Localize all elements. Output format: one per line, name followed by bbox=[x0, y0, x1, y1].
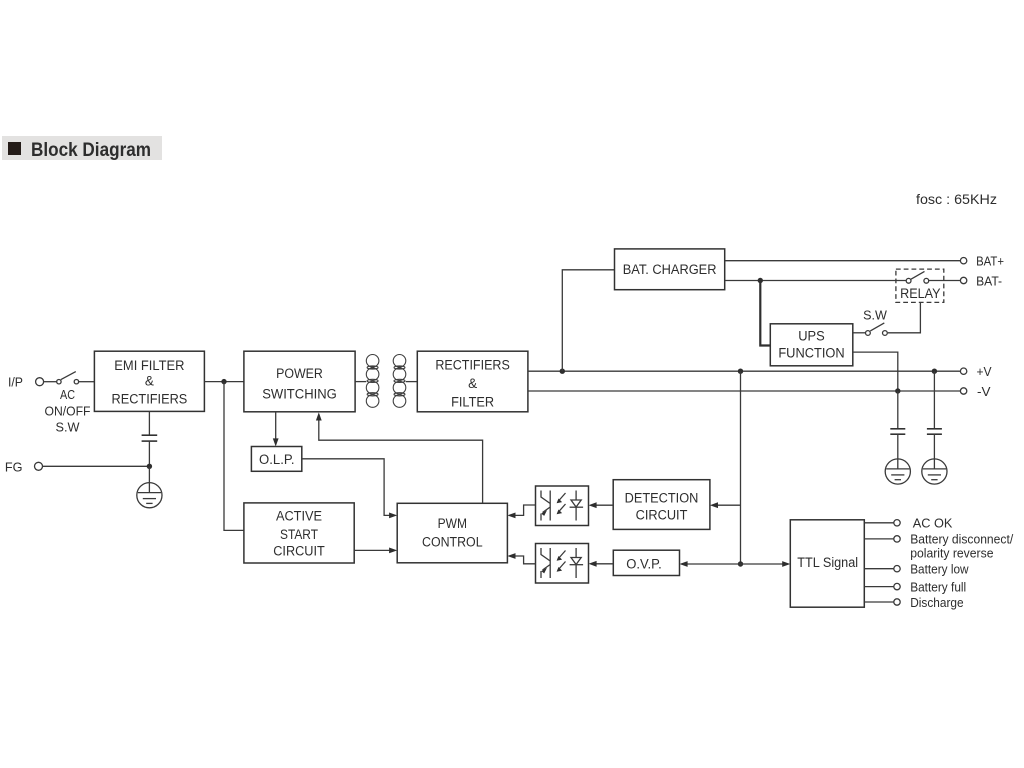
svg-text:+V: +V bbox=[977, 364, 992, 379]
svg-text:SWITCHING: SWITCHING bbox=[262, 387, 337, 402]
switch S.W lever bbox=[870, 323, 884, 331]
svg-text:&: & bbox=[145, 373, 154, 388]
earth ground G2 bbox=[885, 459, 910, 484]
svg-text:ACTIVE: ACTIVE bbox=[276, 509, 322, 524]
transformer T1 primary winding bbox=[366, 355, 379, 408]
svg-text:fosc : 65KHz: fosc : 65KHz bbox=[916, 192, 997, 207]
wire BAT- left segment bbox=[725, 280, 906, 282]
wire optocoupler U2 to PWM bbox=[507, 553, 535, 564]
svg-text:polarity reverse: polarity reverse bbox=[910, 546, 993, 561]
svg-text:Battery low: Battery low bbox=[910, 562, 969, 577]
switch S.W contacts bbox=[866, 331, 888, 336]
svg-text:FUNCTION: FUNCTION bbox=[778, 345, 844, 360]
wire UPS feed bbox=[760, 281, 770, 346]
svg-text:POWER: POWER bbox=[276, 366, 323, 381]
wire optocoupler U1 to PWM bbox=[507, 505, 535, 518]
optocoupler U1 bbox=[536, 486, 589, 526]
svg-text:-V: -V bbox=[977, 384, 991, 399]
junction +V to charger feed bbox=[560, 369, 565, 374]
block PWM CONTROL bbox=[397, 503, 507, 563]
wire sense to detection circuit bbox=[710, 502, 741, 508]
svg-text:EMI FILTER: EMI FILTER bbox=[114, 358, 184, 373]
svg-text:Discharge: Discharge bbox=[910, 595, 963, 610]
transformer T1 secondary winding bbox=[393, 355, 406, 408]
junction on -V rail bbox=[895, 388, 900, 393]
wire sense to OVP bbox=[680, 561, 741, 567]
title bullet bbox=[8, 142, 21, 155]
wire C3 to earth bbox=[933, 434, 935, 459]
junction node after EMI bbox=[221, 379, 226, 384]
svg-text:O.L.P.: O.L.P. bbox=[259, 452, 295, 467]
terminal battery full bbox=[894, 583, 900, 589]
switch AC ON/OFF contacts bbox=[57, 380, 79, 384]
label AC ON/OFF S.W bbox=[45, 387, 91, 435]
wire EMI to capacitor C1 bbox=[148, 411, 150, 435]
capacitor C1 bbox=[142, 435, 158, 441]
block UPS FUNCTION bbox=[770, 324, 853, 366]
wire switch to EMI filter bbox=[79, 381, 95, 383]
label battery disconnect / polarity reverse bbox=[910, 532, 1013, 561]
svg-text:UPS: UPS bbox=[798, 329, 825, 344]
wire TTL output discharge bbox=[864, 601, 894, 603]
terminal AC OK bbox=[894, 520, 900, 526]
wire TTL output battery low bbox=[864, 568, 894, 570]
wire power switching to OLP bbox=[273, 412, 279, 447]
svg-text:DETECTION: DETECTION bbox=[625, 491, 699, 506]
svg-text:Battery full: Battery full bbox=[910, 579, 966, 594]
wire -V to capacitor C2 bbox=[897, 391, 899, 429]
terminal battery low bbox=[894, 566, 900, 572]
switch AC ON/OFF lever bbox=[61, 372, 76, 380]
block RECTIFIERS & FILTER bbox=[417, 351, 528, 412]
terminal I/P bbox=[36, 378, 44, 386]
wire charger feed bbox=[562, 270, 614, 371]
svg-text:&: & bbox=[468, 376, 477, 391]
relay dashed enclosure bbox=[896, 269, 944, 302]
svg-text:BAT-: BAT- bbox=[976, 273, 1002, 288]
wire sense to TTL signal bbox=[741, 561, 791, 567]
svg-text:S.W: S.W bbox=[56, 420, 81, 435]
svg-text:START: START bbox=[280, 527, 318, 542]
wire relay coil to S.W bbox=[888, 302, 921, 332]
svg-text:Block Diagram: Block Diagram bbox=[31, 140, 151, 161]
wire sense drop bbox=[740, 371, 742, 564]
wire power switching to transformer bbox=[355, 381, 366, 383]
block O.V.P. bbox=[613, 550, 679, 575]
terminal -V bbox=[960, 388, 966, 394]
capacitor C2 bbox=[890, 429, 905, 434]
wire FG node to earth bbox=[148, 466, 150, 482]
svg-text:FILTER: FILTER bbox=[451, 395, 494, 410]
wire FG to node bbox=[43, 465, 150, 467]
wire UPS to -V rail bbox=[853, 352, 898, 391]
wire TTL output battery full bbox=[864, 586, 894, 588]
wire C2 to earth bbox=[897, 434, 899, 459]
block DETECTION CIRCUIT bbox=[613, 480, 710, 530]
block EMI FILTER & RECTIFIERS bbox=[94, 351, 204, 411]
svg-text:S.W: S.W bbox=[863, 308, 887, 323]
earth ground G1 bbox=[137, 483, 162, 508]
svg-text:I/P: I/P bbox=[8, 375, 23, 390]
svg-text:O.V.P.: O.V.P. bbox=[626, 557, 662, 572]
wire +V rail bbox=[528, 370, 961, 372]
block ACTIVE START CIRCUIT bbox=[244, 503, 354, 563]
block POWER SWITCHING bbox=[244, 351, 355, 412]
svg-text:CONTROL: CONTROL bbox=[422, 535, 483, 550]
terminal battery disconnect bbox=[894, 536, 900, 542]
junction sense T node bbox=[738, 561, 743, 566]
block BAT. CHARGER bbox=[615, 249, 725, 290]
terminal BAT- bbox=[960, 277, 966, 283]
svg-text:BAT. CHARGER: BAT. CHARGER bbox=[623, 262, 717, 277]
earth ground G3 bbox=[922, 459, 947, 484]
svg-text:TTL Signal: TTL Signal bbox=[797, 555, 858, 570]
junction +V at capacitor C3 bbox=[932, 369, 937, 374]
svg-text:BAT+: BAT+ bbox=[976, 254, 1004, 269]
wire TTL output battery disconnect bbox=[864, 538, 894, 540]
terminal FG bbox=[35, 462, 43, 470]
terminal BAT+ bbox=[960, 258, 966, 264]
wire TTL output AC OK bbox=[864, 522, 894, 524]
wire transformer to rectifiers bbox=[406, 381, 418, 383]
block TTL Signal bbox=[790, 520, 864, 607]
wire BAT+ bbox=[725, 260, 961, 262]
title bar bbox=[2, 136, 162, 160]
junction +V sense drop bbox=[738, 369, 743, 374]
wire +V to capacitor C3 bbox=[933, 371, 935, 429]
junction FG node bbox=[147, 464, 152, 469]
wire detection to optocoupler U1 bbox=[589, 502, 614, 508]
wire I/P to switch bbox=[44, 381, 57, 383]
svg-text:RECTIFIERS: RECTIFIERS bbox=[112, 391, 188, 406]
junction BAT- to UPS feed bbox=[758, 278, 763, 283]
svg-text:RECTIFIERS: RECTIFIERS bbox=[435, 358, 510, 373]
block O.L.P. bbox=[251, 447, 301, 472]
svg-text:AC OK: AC OK bbox=[913, 516, 953, 531]
svg-text:Battery disconnect/: Battery disconnect/ bbox=[910, 532, 1013, 547]
wire OVP to optocoupler U2 bbox=[589, 561, 614, 567]
relay contacts bbox=[906, 278, 929, 283]
wire active start to PWM bbox=[354, 548, 397, 554]
wire -V rail bbox=[528, 390, 961, 392]
svg-text:CIRCUIT: CIRCUIT bbox=[636, 508, 688, 523]
svg-text:RELAY: RELAY bbox=[900, 286, 940, 301]
wire relay to BAT- terminal bbox=[928, 280, 960, 282]
terminal +V bbox=[960, 368, 966, 374]
relay lever bbox=[911, 271, 925, 279]
terminal discharge bbox=[894, 599, 900, 605]
wire EMI to power switching bbox=[204, 381, 244, 383]
wire C1 to FG node bbox=[148, 441, 150, 466]
wire UPS to S.W bbox=[853, 332, 866, 334]
capacitor C3 bbox=[927, 429, 942, 434]
wire OLP to PWM bbox=[302, 459, 397, 519]
optocoupler U2 bbox=[536, 544, 589, 584]
svg-text:ON/OFF: ON/OFF bbox=[45, 404, 91, 419]
svg-text:FG: FG bbox=[5, 459, 23, 474]
svg-text:AC: AC bbox=[60, 387, 75, 402]
svg-text:PWM: PWM bbox=[438, 516, 467, 531]
svg-text:CIRCUIT: CIRCUIT bbox=[273, 544, 325, 559]
wire PWM to power switching bbox=[316, 412, 483, 503]
wire node to active start circuit bbox=[224, 382, 244, 531]
